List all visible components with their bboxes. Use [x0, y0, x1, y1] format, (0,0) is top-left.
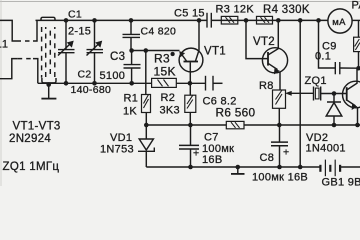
crystal ZQ1 plates	[313, 87, 315, 101]
node dot supply column top	[298, 18, 303, 23]
transistor VT1 collector	[196, 20, 200, 61]
wire ZQ1 to VT3 base	[321, 93, 347, 95]
scan border left	[0, 0, 2, 186]
node dot ground mid	[46, 82, 51, 87]
wire supply column	[299, 20, 301, 167]
wire R2 bottom	[189, 112, 191, 125]
ground bottom	[237, 167, 239, 174]
capacitor C7 wires	[190, 125, 192, 145]
diode VD2 cathode bar	[327, 101, 341, 103]
resistor R7 edge body	[358, 20, 360, 37]
svg-text:VT1: VT1	[204, 45, 226, 57]
capacitor C5 plates	[206, 13, 208, 28]
node dot VT1 collector	[197, 18, 202, 23]
svg-text:0.1: 0.1	[315, 51, 331, 63]
node dot emitter C4C3	[129, 48, 134, 53]
transistor VT2 collector	[268, 20, 278, 55]
zener diode VD1	[145, 125, 147, 139]
capacitor C9 feed wire	[319, 20, 336, 68]
wire R2 top	[189, 83, 191, 95]
capacitor C6 stub wire	[213, 82, 223, 84]
node dot C2 bottom	[92, 81, 97, 86]
capacitor C1 trimmer arrow	[58, 44, 71, 56]
capacitor C2 plates	[87, 49, 104, 51]
transistor VT1 base bar	[184, 61, 199, 63]
capacitor C3 plates	[124, 64, 141, 66]
potentiometer R8 wiper arrow	[290, 92, 314, 94]
ground	[48, 83, 50, 98]
svg-text:мА: мА	[332, 17, 346, 28]
transistor VT2 circle	[262, 48, 287, 73]
node dot C7 bus	[188, 165, 193, 170]
resistor R3sel body	[152, 78, 177, 87]
svg-text:1N753: 1N753	[100, 144, 134, 156]
node dot VT1 base	[188, 81, 193, 86]
node dot VT2 collector	[276, 18, 281, 23]
node dot VD2 anode	[332, 123, 337, 128]
svg-text:R3: R3	[154, 52, 170, 66]
capacitor C3 wires	[131, 51, 133, 65]
capacitor C2 wires	[94, 20, 96, 49]
wire top bus	[36, 19, 208, 21]
ammeter PA1 circle	[328, 9, 352, 33]
svg-text:R8: R8	[259, 80, 274, 92]
wire common rail y125	[146, 124, 226, 126]
svg-text:R4 330K: R4 330K	[263, 4, 310, 16]
svg-text:C1: C1	[68, 9, 82, 21]
node dot VD1	[144, 123, 149, 128]
capacitor C8 plates	[271, 141, 288, 143]
resistor R2	[185, 95, 196, 112]
inductor L1 bottom winding cap	[42, 78, 56, 83]
svg-text:+: +	[193, 148, 199, 160]
wire mid ground bus	[38, 82, 152, 84]
wire R8 bottom	[278, 108, 280, 125]
node dot C9 top	[316, 18, 321, 23]
transistor VT2 emitter	[268, 63, 278, 69]
svg-text:2-15: 2-15	[68, 26, 91, 38]
resistor R6 body	[226, 121, 244, 128]
wire R1 feed	[145, 51, 147, 95]
transistor VT2 base bar	[267, 52, 269, 66]
capacitor C9 out wire	[340, 67, 359, 69]
inductor L1 top winding cap	[41, 17, 55, 20]
resistor R1	[142, 95, 151, 113]
node dot supply bus	[298, 165, 303, 170]
capacitor C6 plates	[205, 76, 207, 91]
svg-text:R6 560: R6 560	[216, 106, 256, 120]
wire top bus right of meter	[352, 19, 360, 21]
capacitor C2 trimmer arrow	[87, 44, 100, 56]
capacitor C7 plates	[179, 144, 199, 146]
svg-text:5100: 5100	[100, 70, 126, 82]
svg-text:ZQ1: ZQ1	[305, 75, 327, 87]
battery GB1	[319, 165, 321, 172]
node dot C9 right	[356, 66, 360, 71]
diode VD2 triangle	[326, 103, 342, 116]
ferrite rod dashed lines	[41, 27, 43, 78]
potentiometer R8 body	[273, 90, 286, 108]
wire common rail y125 right	[244, 124, 360, 126]
node dot C8 bus	[277, 165, 282, 170]
svg-text:R2: R2	[161, 92, 176, 104]
transistor VT3 emitter	[347, 100, 356, 106]
diode VD2 wires	[333, 94, 335, 103]
label R3sel star	[171, 52, 175, 56]
inductor L1 coupling loop turn 1	[0, 20, 17, 41]
wire R1 to VD1	[145, 113, 147, 126]
svg-text:C5 15: C5 15	[174, 8, 205, 20]
scan border top	[0, 1, 360, 3]
svg-text:1K: 1K	[123, 106, 137, 118]
transistor VT3 base bar	[346, 87, 348, 101]
node dot emitter R1	[144, 48, 149, 53]
svg-text:VD1: VD1	[110, 132, 132, 144]
node dot C2 top	[92, 18, 97, 23]
wire bottom bus	[146, 166, 320, 168]
wire VT1 emitter line	[132, 50, 180, 52]
capacitor C1 wires	[65, 20, 67, 49]
resistor R4 330K body	[257, 16, 273, 24]
svg-text:VT1-VT3: VT1-VT3	[13, 121, 61, 133]
wire edge column	[358, 52, 360, 69]
svg-text:1N4001: 1N4001	[306, 143, 346, 155]
svg-text:3K3: 3K3	[160, 105, 180, 117]
node dot VT2 base top	[244, 18, 249, 23]
svg-text:C3: C3	[110, 51, 125, 63]
wire bottom bus right	[340, 166, 360, 168]
wire R3sel to base node	[176, 82, 205, 84]
svg-text:2N2924: 2N2924	[9, 133, 51, 145]
transistor VT3 circle	[343, 81, 360, 108]
svg-text:C7: C7	[204, 132, 219, 144]
svg-text:PA1: PA1	[352, 0, 360, 12]
svg-text:140-680: 140-680	[71, 84, 112, 96]
svg-text:100мк 16В: 100мк 16В	[252, 172, 308, 184]
node dot ground bus	[236, 165, 241, 170]
node dot C3 bottom	[129, 81, 134, 86]
svg-text:15K: 15K	[154, 65, 176, 79]
svg-text:R3 12K: R3 12K	[216, 3, 255, 15]
capacitor C9 plates	[334, 62, 336, 74]
inductor L1 coupling loop turn 2	[0, 59, 18, 79]
node dot C1 bottom	[64, 81, 69, 86]
capacitor C8 wires	[279, 125, 281, 142]
node dot C1 top	[64, 18, 69, 23]
transistor VT1 base wire	[189, 62, 191, 83]
svg-text:+: +	[283, 147, 289, 159]
capacitor C1 plates	[58, 49, 75, 51]
svg-text:VT2: VT2	[253, 36, 275, 48]
crystal ZQ1 body	[315, 88, 319, 99]
transistor VT1 circle	[179, 48, 203, 72]
svg-text:R1: R1	[124, 93, 139, 105]
transistor VT1 emitter	[181, 53, 187, 61]
svg-text:L1: L1	[0, 39, 8, 51]
node dot C4 top	[129, 18, 134, 23]
node dot VT3 emitter rail	[355, 123, 360, 128]
svg-text:16В: 16В	[202, 154, 222, 166]
svg-text:GB1 9В: GB1 9В	[322, 177, 360, 187]
svg-text:C2: C2	[78, 69, 92, 81]
resistor R3 12K body	[221, 16, 238, 24]
node dot R8 bottom	[277, 123, 282, 128]
node dot VT3 base	[332, 91, 337, 96]
svg-text:C4 820: C4 820	[141, 26, 177, 38]
node dot R2 bottom	[188, 123, 193, 128]
svg-text:C8: C8	[260, 152, 275, 164]
transistor VT3 collector	[347, 69, 357, 91]
capacitor C4 wires	[130, 20, 132, 34]
capacitor C4 plates	[123, 33, 141, 35]
transistor VT2 base wire	[246, 20, 268, 58]
svg-text:ZQ1 1МГц: ZQ1 1МГц	[3, 161, 60, 173]
